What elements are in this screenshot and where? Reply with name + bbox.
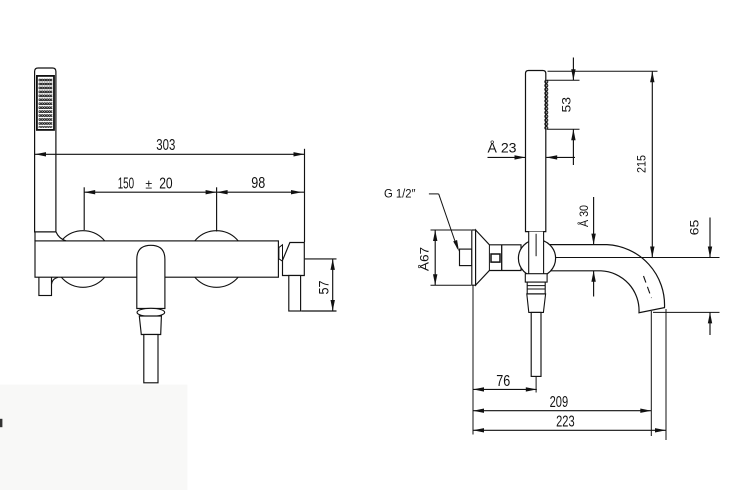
dimension 57 knob drop [301,259,336,311]
svg-text:Å67: Å67 [417,247,432,271]
dimension 76 lever offset [473,285,537,434]
dimension 223 overall reach [473,309,666,440]
leader G 1/2 inch [384,187,459,252]
svg-text:209: 209 [550,394,569,411]
cartridge nut below body (side view) [525,274,547,282]
G 1/2 connection nipple (side view) [460,249,472,266]
svg-text:65: 65 [687,220,701,236]
mixer body circle (side view) [518,240,555,277]
dimension 150 plus-minus 20 connection centres [84,176,216,232]
dimension 215 overall height [548,71,658,257]
shower holder fork (side view) [529,232,544,274]
centre axis reference line [556,257,720,259]
dimension diameter 67 flange [417,230,472,285]
drop rod below knob (front view) [289,276,301,312]
dimension diameter 23 hand shower [488,141,576,160]
lever rod (side view) [531,312,541,376]
ring band (side view) [527,282,545,294]
dimension 53 spray strip [547,58,580,166]
hand shower spray face with nozzle grid (front view) [37,76,54,130]
wall flange cone and mounting block (side view) [476,230,521,285]
locking screw square on block [491,254,500,262]
svg-text:Å 23: Å 23 [488,141,517,156]
svg-text:20: 20 [159,176,173,193]
dimension 209 spout reach [473,311,651,436]
svg-text:57: 57 [316,281,331,295]
spray face dotted strip (side view) [543,80,549,130]
hose connection stub below holder [39,272,52,296]
diverter knob at right end (front view) [279,243,304,276]
shower holder occlusion cover [34,229,63,241]
hand shower cylinder (side view) [526,71,546,232]
svg-text:150: 150 [118,176,135,193]
mixer body bar (front view) [35,241,278,277]
dimension 98 [217,175,305,194]
single lever handle (front view) [137,245,165,382]
aerator dashed line inside spout tip [644,276,652,298]
svg-text:G 1/2″: G 1/2″ [384,187,416,201]
lever rod centre extension [535,376,537,392]
svg-text:98: 98 [251,175,265,192]
svg-text:215: 215 [635,155,649,173]
svg-text:303: 303 [156,137,175,154]
wall flange plate (side view) [472,230,476,285]
svg-text:53: 53 [559,97,573,113]
dimension 65 spout drop [653,218,720,336]
hand shower holder cup [35,232,66,241]
light gray watermark block bottom-left [0,385,187,490]
dimension 303 overall width [35,137,305,242]
svg-text:76: 76 [496,373,510,390]
front view right wall flange circle [188,231,245,288]
svg-text:Å 30: Å 30 [576,205,591,227]
svg-text:223: 223 [556,414,575,431]
svg-text:±: ± [145,177,152,192]
front view left wall flange circle [55,231,112,288]
hose stub fillet curve [52,277,59,284]
dimension diameter 30 spout [576,197,596,297]
hand shower handle (front view) [35,68,56,232]
wall spout (side view) [545,245,665,313]
tapered lever collar (side view) [527,294,546,313]
